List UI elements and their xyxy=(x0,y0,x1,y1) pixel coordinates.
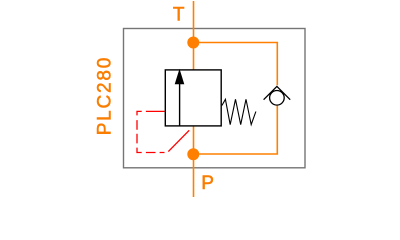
pilot arrow diagonal xyxy=(168,130,189,151)
check valve ball xyxy=(270,91,285,106)
flow arrow head xyxy=(175,69,185,84)
wire P vertical xyxy=(193,126,195,197)
svg-text:PLC280: PLC280 xyxy=(95,56,116,135)
check valve seat xyxy=(264,86,291,99)
pilot line dashed xyxy=(137,111,165,152)
svg-text:T: T xyxy=(173,5,185,26)
flow arrow stem xyxy=(179,82,181,126)
junction node T xyxy=(187,37,199,49)
spring xyxy=(222,99,256,124)
wire T vertical xyxy=(193,1,195,70)
wire bottom branch xyxy=(194,106,278,154)
enclosure box xyxy=(124,29,306,168)
svg-text:P: P xyxy=(201,173,214,194)
valve body square xyxy=(165,70,221,126)
junction node P xyxy=(187,148,199,160)
wire top branch xyxy=(194,43,278,86)
